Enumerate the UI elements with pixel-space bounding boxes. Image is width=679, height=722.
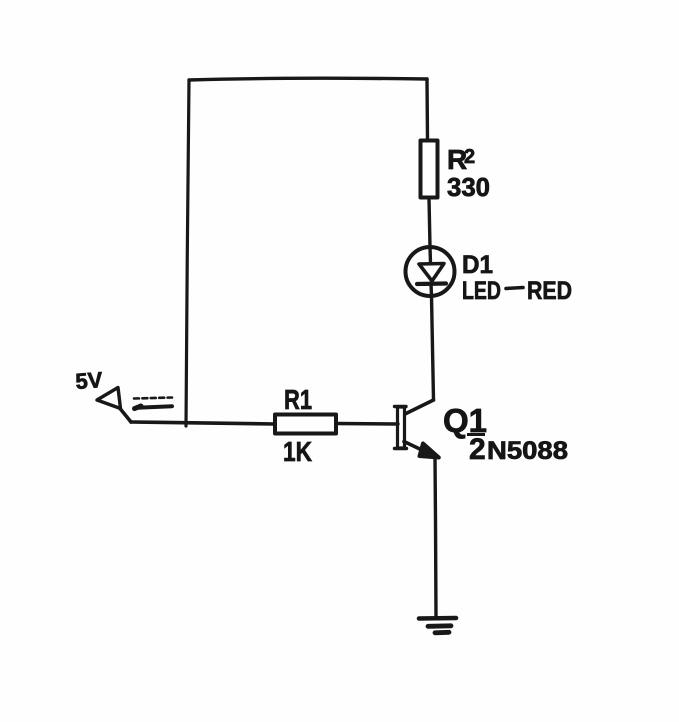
svg-text:LED: LED bbox=[462, 277, 501, 305]
svg-text:R1: R1 bbox=[284, 384, 312, 415]
svg-text:2: 2 bbox=[464, 146, 475, 168]
svg-text:2: 2 bbox=[469, 433, 486, 466]
svg-text:1K: 1K bbox=[283, 436, 312, 467]
svg-text:N5088: N5088 bbox=[487, 437, 568, 465]
svg-text:RED: RED bbox=[527, 277, 572, 305]
svg-text:D1: D1 bbox=[462, 251, 493, 279]
svg-text:5V: 5V bbox=[75, 367, 104, 394]
svg-text:330: 330 bbox=[447, 172, 490, 202]
